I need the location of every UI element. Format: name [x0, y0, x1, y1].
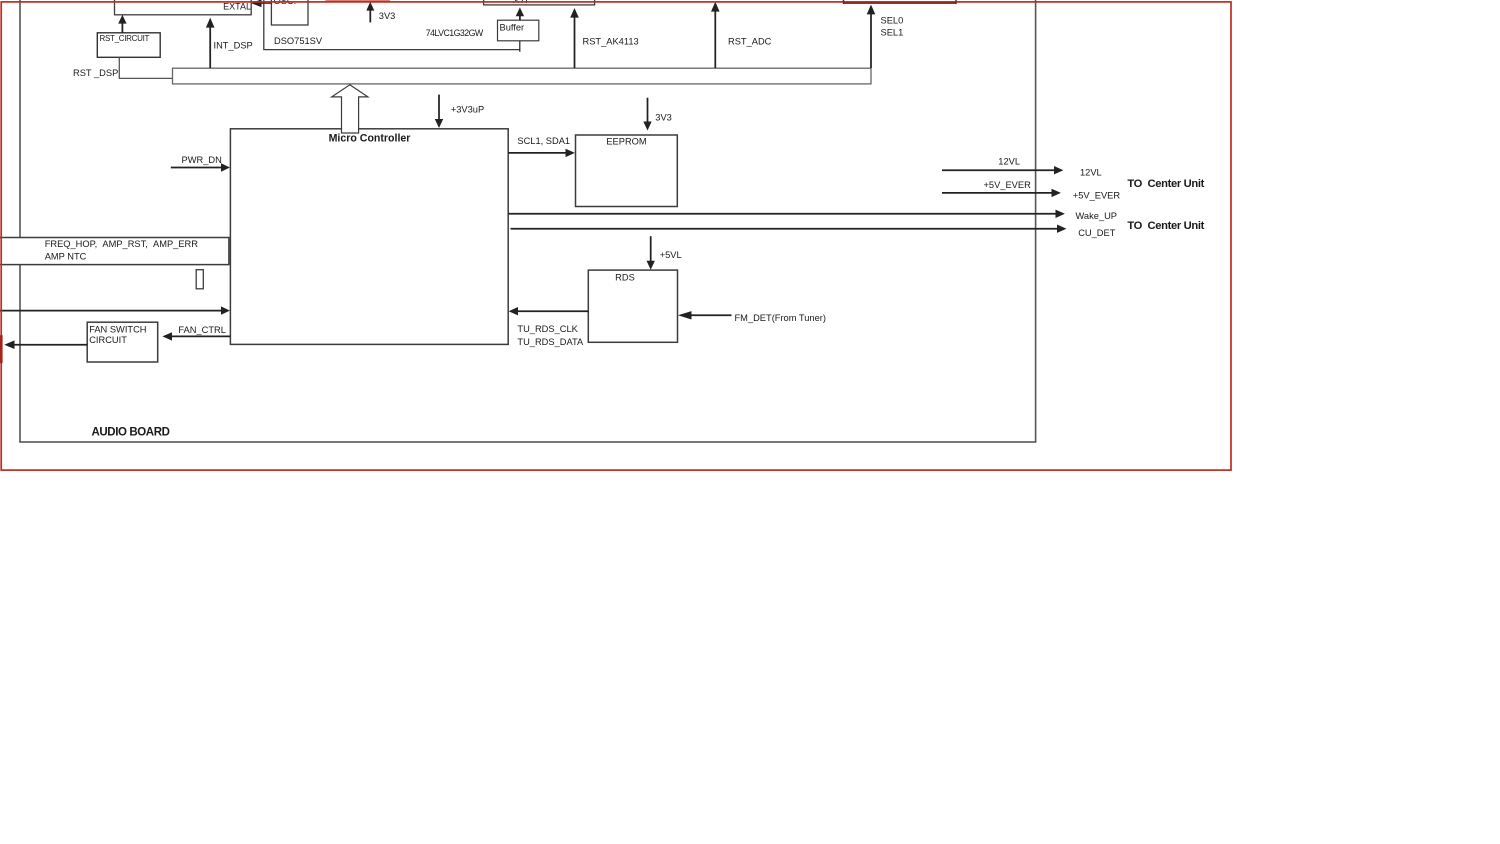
svg-text:+3V3uP: +3V3uP	[451, 105, 484, 115]
fan switch circuit box	[87, 322, 158, 362]
reset generator RST_CIRCUIT box	[97, 33, 160, 58]
top cut-off components	[115, 0, 595, 52]
svg-text:RST _DSP: RST _DSP	[73, 68, 118, 78]
svg-text:RST_CIRCUIT: RST_CIRCUIT	[100, 34, 150, 43]
svg-text:+5V_EVER: +5V_EVER	[1073, 191, 1121, 201]
svg-text:Micro Controller: Micro Controller	[329, 132, 411, 144]
red page frame	[0, 0, 1231, 470]
wire 12VL to center unit	[942, 169, 1055, 171]
svg-text:EXTAL: EXTAL	[223, 2, 251, 12]
power arrow 3V3 into DSP	[369, 9, 371, 22]
signal PWR_DN arrow into MCU	[171, 167, 222, 169]
svg-text:12VL: 12VL	[998, 156, 1020, 166]
svg-text:12VL: 12VL	[1080, 168, 1102, 178]
svg-text:CU_DET: CU_DET	[1078, 228, 1116, 238]
arrow RST_AK4113 from bus up	[574, 17, 576, 69]
svg-text:FM_DET(From Tuner): FM_DET(From Tuner)	[735, 313, 826, 323]
svg-text:74LVC1G32GW: 74LVC1G32GW	[426, 28, 484, 38]
memory U-EEPROM box	[576, 135, 678, 207]
power arrow 3V3 into EEPROM	[647, 98, 649, 122]
red cut-off box B (top, x 843-956, maroon)	[844, 0, 957, 4]
right side outputs	[508, 156, 1204, 238]
svg-text:RST_AK4113: RST_AK4113	[583, 36, 639, 46]
svg-text:TO Center Unit: TO Center Unit	[1127, 220, 1204, 232]
micro controller U-MCU box	[230, 129, 508, 345]
wire TU_RDS RDS to MCU	[517, 310, 588, 312]
micro controller section	[0, 85, 508, 345]
wire RST_CIRCUIT down to bus	[119, 57, 172, 78]
svg-text:FAN_CTRL: FAN_CTRL	[178, 325, 226, 335]
svg-text:SEL1: SEL1	[881, 27, 904, 37]
svg-text:FAN SWITCH: FAN SWITCH	[89, 324, 146, 334]
wire +5V_EVER to center unit	[942, 192, 1053, 194]
arrow SEL0 SEL1 from bus corner up	[870, 14, 872, 69]
wire FM_DET into RDS	[691, 314, 732, 316]
svg-text:Buffer: Buffer	[500, 22, 525, 32]
AUDIO BOARD box	[20, 0, 1036, 442]
wire Wake_UP MCU to center unit	[508, 213, 1056, 215]
svg-text:3V3: 3V3	[655, 112, 672, 122]
connector stub (small rectangle)	[196, 270, 203, 289]
arrow fan switch to board edge	[14, 344, 88, 346]
svg-text:EEPROM: EEPROM	[606, 136, 646, 146]
arrow Buffer to XTI	[519, 14, 521, 20]
svg-text:TU_RDS_DATA: TU_RDS_DATA	[517, 337, 584, 347]
svg-text:TO Center Unit: TO Center Unit	[1127, 178, 1204, 190]
svg-text:DSO751SV: DSO751SV	[274, 36, 323, 46]
left side components	[0, 238, 229, 363]
power arrow +3V3uP into MCU	[438, 95, 440, 120]
signal bundle box FREQ_HOP/AMP_RST/AMP_ERR/AMP NTC	[0, 238, 229, 265]
svg-text:RDS: RDS	[615, 273, 635, 283]
svg-text:RST_ADC: RST_ADC	[728, 36, 772, 46]
arrow RST_CIRCUIT to EXTAL box	[121, 22, 123, 33]
power arrow +5VL into RDS	[650, 236, 652, 261]
wire CU_DET MCU to center unit	[511, 228, 1059, 230]
wire OSC to EXTAL	[256, 2, 271, 4]
svg-text:SEL0: SEL0	[881, 15, 904, 25]
wire SCL1,SDA1 MCU to EEPROM	[508, 152, 566, 154]
bus and reset arrows	[73, 2, 903, 84]
svg-text:SCL1, SDA1: SCL1, SDA1	[517, 136, 570, 146]
signal FAN_CTRL arrow MCU to fan switch	[171, 335, 230, 337]
DSP block U-DSP (cut off at top), left edge + bottom edge	[264, 0, 520, 50]
red cut-off box A (top, x 325-390)	[326, 0, 391, 2]
svg-text:AUDIO BOARD: AUDIO BOARD	[92, 426, 170, 438]
svg-text:TU_RDS_CLK: TU_RDS_CLK	[517, 324, 578, 334]
arrowhead into EXTAL (left)	[251, 0, 261, 7]
decoder U-RDS box	[588, 270, 677, 342]
Buffer box	[498, 20, 539, 41]
svg-text:3V3: 3V3	[379, 11, 396, 21]
wire Buffer bottom to DSP edge	[519, 41, 521, 52]
svg-text:Wake_UP: Wake_UP	[1076, 211, 1118, 221]
oscillator block OSC. inside DSP	[271, 0, 308, 25]
svg-text:OSC.: OSC.	[274, 0, 297, 6]
svg-text:PWR_DN: PWR_DN	[182, 155, 222, 165]
block arrow bus to MCU	[332, 85, 368, 133]
svg-text:AMP NTC: AMP NTC	[45, 251, 87, 261]
reset bus (long thin rectangle)	[173, 68, 872, 84]
arrow INT_DSP bus to EXTAL area	[209, 27, 211, 69]
svg-text:CIRCUIT: CIRCUIT	[89, 335, 127, 345]
crystal box EXTAL (cut off at top)	[115, 0, 252, 15]
svg-text:INT_DSP: INT_DSP	[214, 40, 253, 50]
svg-text:+5V_EVER: +5V_EVER	[984, 180, 1032, 190]
unlabeled arrow into MCU left (from board edge)	[0, 310, 222, 312]
svg-text:+5VL: +5VL	[660, 250, 682, 260]
arrow RST_ADC from bus up	[714, 11, 716, 69]
crystal box XTI (cut off at top)	[484, 0, 595, 5]
red cut-off box C (left, y 335-363)	[0, 335, 3, 363]
svg-text:XTI: XTI	[513, 0, 528, 6]
eeprom and rds	[508, 98, 826, 347]
svg-text:FREQ_HOP, AMP_RST, AMP_ERR: FREQ_HOP, AMP_RST, AMP_ERR	[45, 239, 199, 249]
